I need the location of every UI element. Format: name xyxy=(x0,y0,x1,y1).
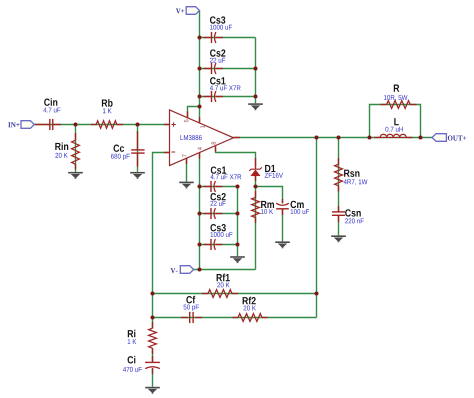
wire Cm to ground xyxy=(282,209,284,242)
wire V- rail horizontal xyxy=(194,269,256,271)
op-amp U1 LM3886 body xyxy=(170,110,234,166)
wire Ci to ground xyxy=(152,369,154,387)
label Rf2 xyxy=(243,297,256,305)
label Ci xyxy=(128,356,136,364)
wire lower cap row Cs1 xyxy=(200,186,238,188)
junction dot 13 xyxy=(236,243,240,247)
junction dot 6 xyxy=(198,95,202,99)
ground Csn xyxy=(331,235,346,237)
inductor L xyxy=(374,137,380,139)
label Cs1 top xyxy=(210,77,225,84)
wire Cc branch xyxy=(137,125,139,172)
label D1 xyxy=(265,165,275,172)
capacitor Cc xyxy=(137,131,139,150)
wire Rin branch xyxy=(75,125,77,172)
junction dot 22 xyxy=(151,292,155,296)
terminal IN+ xyxy=(21,121,34,129)
ground top cap bank xyxy=(248,103,263,105)
wire top cap row Cs3 xyxy=(200,37,256,39)
resistor Rm xyxy=(255,191,257,198)
capacitor Cs3 top xyxy=(204,37,212,39)
wire V+ rail xyxy=(199,11,201,124)
wire Rm leads xyxy=(255,187,257,270)
wire pin7 to ground xyxy=(186,158,188,181)
wire Rsn branch xyxy=(338,138,340,212)
capacitor Cin xyxy=(35,124,50,126)
label Rin xyxy=(55,142,68,150)
pin 1 xyxy=(200,126,204,129)
capacitor Cs2 bottom xyxy=(204,213,212,215)
resistor R xyxy=(381,104,387,106)
capacitor Cf xyxy=(181,317,188,319)
ground Cc xyxy=(130,172,145,174)
capacitor Cs1 top xyxy=(204,96,212,98)
wire Cf Rf2 row xyxy=(153,317,317,319)
resistor Rb xyxy=(91,124,96,126)
diode D1 zener xyxy=(255,158,257,169)
pin 4 xyxy=(198,147,202,150)
wire lower bank right rail xyxy=(237,187,239,257)
junction dot 5 xyxy=(198,67,202,71)
junction dot 12 xyxy=(236,212,240,216)
label Cf xyxy=(186,296,195,304)
junction dot 1 xyxy=(74,123,78,127)
wire input net IN+ to op-amp + xyxy=(34,124,169,126)
wire pin8 mute net xyxy=(216,146,256,166)
junction dot 7 xyxy=(198,185,202,189)
label Cs1 bottom xyxy=(211,166,226,173)
wire R parallel loop xyxy=(370,105,421,138)
terminal V+ xyxy=(186,7,199,15)
capacitor Cs1 bottom xyxy=(204,186,212,188)
pin 5 xyxy=(184,120,188,123)
wire D1 anode to node xyxy=(255,176,257,187)
wire top bank right rail xyxy=(255,38,257,104)
terminal V- xyxy=(180,266,193,274)
junction dot 4 xyxy=(198,36,202,40)
label Rb xyxy=(102,99,113,107)
junction dot 17 xyxy=(315,136,319,140)
wire inverting input xyxy=(153,153,170,329)
ground pin7 xyxy=(179,182,194,184)
junction dot 9 xyxy=(198,243,202,247)
label Csn xyxy=(345,209,361,216)
ground Cm xyxy=(275,241,290,243)
wire node to Cm xyxy=(256,187,283,204)
junction dot 16 xyxy=(254,185,258,189)
label Cs3 top xyxy=(210,16,225,23)
junction dot 10 xyxy=(198,268,202,272)
ground Ci xyxy=(145,387,160,389)
label Cs2 top xyxy=(210,49,225,56)
junction dot 14 xyxy=(254,67,258,71)
ground Rin xyxy=(68,172,83,174)
junction dot 20 xyxy=(419,136,423,140)
junction dot 23 xyxy=(151,316,155,320)
label Rm xyxy=(261,201,274,208)
wire feedback vertical xyxy=(316,138,318,318)
capacitor Cm xyxy=(282,199,284,203)
label Rf1 xyxy=(217,274,230,282)
label Cs3 bottom xyxy=(210,224,225,231)
label LM3886 xyxy=(180,135,201,140)
terminal OUT+ xyxy=(432,134,446,142)
wire Csn to ground xyxy=(338,215,340,235)
wire lower cap row Cs3 xyxy=(200,244,238,246)
capacitor Ci xyxy=(152,356,154,362)
ground lower cap bank xyxy=(230,256,245,258)
resistor Rin xyxy=(75,133,77,140)
junction dot 15 xyxy=(254,95,258,99)
wire pin4 / V- rail xyxy=(199,153,201,270)
op-amp pin leads xyxy=(164,124,170,126)
capacitor Cs3 bottom xyxy=(204,244,212,246)
label Cc xyxy=(114,145,125,152)
op-amp + marker xyxy=(171,124,175,126)
resistor Rf1 xyxy=(202,293,208,295)
wire top cap row Cs2 xyxy=(200,68,256,70)
junction dot 11 xyxy=(236,185,240,189)
junction dot 21 xyxy=(315,292,319,296)
capacitor Csn xyxy=(338,206,340,212)
resistor Rf2 xyxy=(233,317,239,319)
wire top cap row Cs1 xyxy=(200,96,256,98)
wire output net xyxy=(234,137,433,139)
wire Ri to Ci xyxy=(152,348,154,362)
pin 7 xyxy=(182,154,186,157)
label R xyxy=(394,85,400,92)
label Cm xyxy=(291,201,304,208)
capacitor Cs2 top xyxy=(204,68,212,70)
op-amp - marker xyxy=(171,151,175,153)
junction dot 18 xyxy=(337,136,341,140)
junction dot 2 xyxy=(136,123,140,127)
label Cs2 bottom xyxy=(210,193,225,200)
wire lower cap row Cs2 xyxy=(200,213,238,215)
junction dot 3 xyxy=(198,105,202,109)
label Ri xyxy=(128,330,136,338)
label Rsn xyxy=(344,170,359,177)
resistor Ri xyxy=(152,322,154,328)
junction dot 8 xyxy=(198,212,202,216)
pin 8 xyxy=(211,142,215,145)
label Cin xyxy=(44,98,57,106)
junction dot 19 xyxy=(368,136,372,140)
wire Rf1 row xyxy=(153,293,317,295)
wire pin5 step xyxy=(188,107,200,118)
label L xyxy=(394,118,398,125)
resistor Rsn xyxy=(338,158,340,164)
